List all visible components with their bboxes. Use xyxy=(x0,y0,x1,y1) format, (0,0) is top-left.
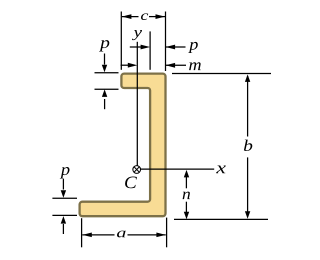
dimension b upper arrowhead xyxy=(245,74,250,82)
dimension c arrow right xyxy=(156,14,166,19)
dimension c line left segment xyxy=(122,16,139,18)
label n xyxy=(183,192,190,200)
dimension p top flange upper arrowhead xyxy=(102,65,107,73)
label C xyxy=(125,177,137,189)
extension line c left xyxy=(120,12,122,70)
dimension p top flange lower arrow line xyxy=(104,99,106,109)
dimension p top flange upper arrow line xyxy=(104,54,106,65)
dimension m right arrowhead xyxy=(166,63,176,68)
dimension b lower line xyxy=(247,157,249,216)
centroid symbol xyxy=(133,166,141,174)
dimension a arrow left xyxy=(82,233,92,238)
dimension p bottom flange lower arrow line xyxy=(62,224,64,234)
dimension p (web) right arrow line xyxy=(166,46,186,48)
label y xyxy=(132,30,142,40)
label p (bottom flange) xyxy=(60,167,70,179)
dimension m left arrow line xyxy=(121,64,134,66)
extension line web left xyxy=(149,31,151,69)
dimension m left arrowhead xyxy=(128,63,138,68)
x axis xyxy=(141,168,215,170)
extension line b top xyxy=(172,73,271,75)
dimension a line left segment xyxy=(82,234,114,236)
label b xyxy=(244,140,252,151)
dimension p bottom flange lower arrowhead xyxy=(61,216,66,224)
extension line bottom flange bottom xyxy=(52,214,77,216)
label c xyxy=(141,13,148,20)
dimension p bottom flange upper arrowhead xyxy=(61,190,66,198)
extension line top flange top xyxy=(95,72,119,74)
extension line bottom flange top xyxy=(52,197,77,199)
extension line a right xyxy=(166,218,168,248)
dimension p (web) left arrow line xyxy=(130,46,146,48)
dimension p top flange lower arrowhead xyxy=(102,89,107,97)
dimension p bottom flange upper arrow line xyxy=(62,179,64,190)
dimension p (web) left arrowhead xyxy=(141,45,151,50)
label x xyxy=(216,166,226,174)
dimension n lower arrowhead xyxy=(184,212,189,220)
dimension b upper line xyxy=(247,76,249,137)
dimension b lower arrowhead xyxy=(245,211,250,219)
channel cross-section shape xyxy=(80,74,166,217)
dimension c arrow left xyxy=(122,14,131,19)
dimension c line right segment xyxy=(149,16,165,18)
dimension a arrow right xyxy=(156,233,166,238)
extension line a left xyxy=(81,218,83,247)
dimension p (web) right arrowhead xyxy=(166,45,176,50)
extension line b bottom / n bottom xyxy=(174,218,268,220)
dimension n upper arrow line xyxy=(185,173,187,188)
y axis xyxy=(136,42,138,166)
dimension n upper arrowhead xyxy=(184,170,189,178)
extension line c right / web right xyxy=(165,12,167,72)
label p (web thickness) xyxy=(188,42,198,53)
label p (top flange) xyxy=(99,40,109,51)
label a xyxy=(117,231,126,238)
dimension n lower arrow line xyxy=(185,202,187,215)
dimension a line right segment xyxy=(128,234,166,236)
label m xyxy=(189,62,201,70)
extension line top flange bottom xyxy=(95,88,119,90)
dimension m right arrow line xyxy=(166,64,186,66)
